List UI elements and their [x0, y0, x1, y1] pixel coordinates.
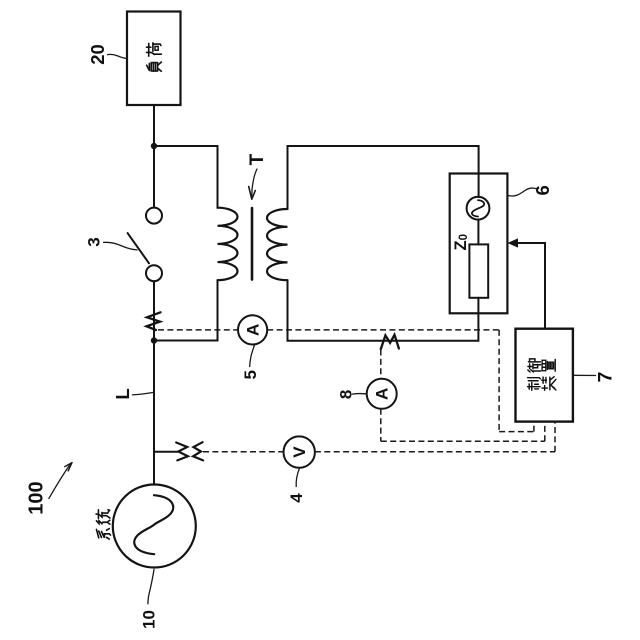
switch 3: [146, 208, 162, 224]
voltage tap double chevron: [176, 443, 188, 461]
zigzag sensor on secondary wire: [381, 335, 399, 349]
svg-text:4: 4: [287, 493, 306, 503]
node junction bottom: [151, 337, 157, 343]
box 6 outline: [450, 174, 508, 314]
leader 10: [148, 570, 154, 604]
leader 6: [508, 188, 537, 196]
svg-text:10: 10: [139, 610, 158, 629]
leader 20: [108, 54, 128, 58]
kanji tou (grid2): [96, 510, 110, 524]
transformer primary coil: [218, 208, 238, 281]
wire voltage tap stub: [154, 451, 178, 453]
kanji ka (load2): [147, 43, 162, 56]
dashed corner right: [499, 431, 534, 433]
leader 5: [250, 345, 255, 367]
ammeter 8: [367, 379, 397, 409]
svg-text:6: 6: [532, 185, 553, 195]
wire switch to source: [153, 281, 155, 484]
kanji sou (ctrl3): [542, 377, 556, 391]
kanji kei (grid1): [96, 529, 110, 540]
dashed zigzag2 to A8: [380, 350, 382, 379]
wire junction to primary top: [154, 146, 218, 208]
transformer secondary coil: [267, 209, 288, 280]
leader T arrow: [252, 169, 257, 197]
load box 20: [127, 12, 181, 106]
wire secondary top: [288, 146, 479, 209]
dashed A5 to corner: [267, 329, 499, 331]
dashed into control box b: [544, 422, 546, 442]
dashed tap to V4: [203, 451, 284, 453]
source circle 10: [113, 485, 196, 568]
ac source in box 6: [467, 197, 490, 220]
svg-text:3: 3: [84, 237, 103, 246]
wire primary bottom: [154, 280, 218, 340]
dashed corner down: [498, 330, 500, 432]
leader 7: [574, 374, 596, 376]
svg-text:L: L: [112, 388, 133, 399]
node junction top: [151, 143, 157, 149]
svg-text:20: 20: [87, 44, 108, 65]
svg-text:V: V: [290, 446, 309, 458]
svg-text:5: 5: [241, 370, 260, 379]
voltmeter 4: [284, 436, 315, 467]
svg-text:100: 100: [26, 481, 48, 514]
leader 8: [352, 392, 366, 395]
dashed A8 down: [380, 409, 382, 442]
svg-text:A: A: [373, 388, 392, 400]
control box 7: [516, 329, 573, 422]
leader L: [133, 392, 154, 395]
leader 4: [296, 468, 299, 486]
kanji sei (ctrl1): [528, 378, 541, 391]
svg-text:7: 7: [594, 372, 616, 383]
control arrow to box 6: [516, 243, 545, 329]
wire secondary bottom: [288, 280, 479, 341]
transformer core: [251, 208, 254, 280]
dashed V4 to corner: [315, 451, 555, 453]
impedance Z0 box: [469, 244, 488, 297]
kanji text 制御装置 in control box: [528, 359, 556, 390]
leader 3: [104, 242, 137, 250]
svg-text:8: 8: [336, 390, 355, 399]
kanji text 負荷 in load box: [96, 43, 161, 539]
dashed A8 right: [381, 440, 545, 442]
arrow 100: [49, 465, 70, 499]
svg-text:Z0: Z0: [452, 234, 470, 251]
wire load to switch: [153, 105, 155, 208]
svg-text:T: T: [247, 153, 268, 165]
dashed into control box c: [554, 422, 556, 452]
svg-text:A: A: [244, 324, 263, 336]
zigzag sensor on grid line: [147, 312, 161, 330]
dashed zigzag to A5: [158, 329, 238, 331]
kanji fu (load1): [147, 62, 162, 71]
dashed into control box a: [533, 422, 535, 432]
ammeter 5: [238, 315, 267, 344]
kanji gyo (ctrl2): [528, 359, 541, 372]
leader lines: [49, 54, 596, 603]
wire ac to impedance: [477, 220, 479, 245]
dashed signal lines: [158, 330, 555, 452]
kanji chi (ctrl4): [542, 359, 555, 371]
